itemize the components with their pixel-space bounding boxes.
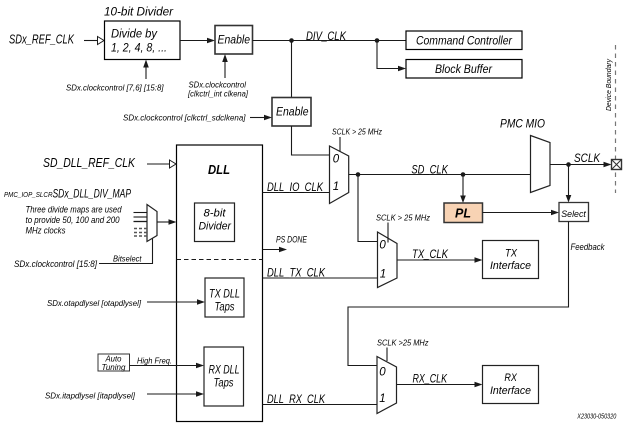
control label SDx.clockcontrol [clkctrl_int clkena] <box>187 80 248 99</box>
block PL <box>444 203 483 223</box>
wire SCLK to Select <box>566 165 572 203</box>
wire select M1 <box>339 137 341 152</box>
block TX Interface <box>483 241 539 279</box>
wire DLL_IO_CLK <box>263 192 330 194</box>
block Block Buffer <box>406 60 522 79</box>
mux M1 <box>330 146 349 204</box>
junction SCLK <box>566 162 571 167</box>
junction DIV_CLK at Enable2 branch <box>289 38 294 43</box>
enable block E1 <box>215 26 253 55</box>
svg-text:RX DLL: RX DLL <box>209 365 240 377</box>
wire control to Enable1 <box>222 54 228 78</box>
mux M3 <box>377 357 397 414</box>
wire select M2 <box>387 223 389 243</box>
block TX DLL Taps <box>205 278 244 317</box>
svg-text:SDx_REF_CLK: SDx_REF_CLK <box>9 33 74 47</box>
wire SCLK net <box>550 162 612 168</box>
svg-text:10-bit Divider: 10-bit Divider <box>104 5 174 19</box>
mux M4 PMC MIO <box>531 136 551 193</box>
svg-text:RX: RX <box>504 372 517 384</box>
svg-text:RX_CLK: RX_CLK <box>413 374 449 386</box>
svg-text:SDx.otapdlysel [otapdlysel]: SDx.otapdlysel [otapdlysel] <box>47 298 142 308</box>
svg-text:SCLK >25 MHz: SCLK >25 MHz <box>377 338 429 348</box>
block Select <box>559 203 589 222</box>
svg-text:Enable: Enable <box>276 105 309 119</box>
wire Enable1 to Command Controller (DIV_CLK net) <box>253 40 407 42</box>
svg-text:SDx_DLL_DIV_MAP: SDx_DLL_DIV_MAP <box>53 189 132 201</box>
enable block E2 <box>272 98 311 127</box>
wire DLL_TX_CLK <box>263 277 378 279</box>
wire SD_DLL_REF_CLK to DLL <box>147 160 176 168</box>
svg-text:SDx.clockcontrol [clkctrl_sdcl: SDx.clockcontrol [clkctrl_sdclkena] <box>123 113 246 123</box>
svg-text:TX: TX <box>505 248 518 260</box>
block 8-bit Divider <box>195 203 235 242</box>
svg-text:SDx.itapdlysel [itapdlysel]: SDx.itapdlysel [itapdlysel] <box>45 390 136 400</box>
svg-text:TX DLL: TX DLL <box>209 289 240 301</box>
svg-text:Interface: Interface <box>490 385 531 397</box>
svg-text:1: 1 <box>333 181 339 193</box>
svg-text:Taps: Taps <box>214 378 234 390</box>
wire DLL_RX_CLK <box>263 404 378 406</box>
svg-text:0: 0 <box>333 154 340 166</box>
svg-text:1: 1 <box>380 268 386 280</box>
svg-text:MHz clocks: MHz clocks <box>26 226 66 236</box>
wire control to divider <box>143 60 149 80</box>
svg-text:SCLK > 25 MHz: SCLK > 25 MHz <box>332 127 383 137</box>
svg-text:X23030-050320: X23030-050320 <box>577 414 617 421</box>
wire Auto Tuning to RX DLL Taps <box>130 363 205 369</box>
wire SD_CLK to PL <box>460 175 466 204</box>
svg-text:to provide 50, 100 and 200: to provide 50, 100 and 200 <box>26 215 120 225</box>
dashed divider inside DLL <box>177 259 263 261</box>
device boundary <box>604 45 616 193</box>
pad SCLK IO <box>612 160 622 170</box>
svg-text:8-bit: 8-bit <box>204 208 227 220</box>
note three divide maps <box>26 205 123 236</box>
svg-text:Block Buffer: Block Buffer <box>435 62 493 76</box>
wire control to Enable2 <box>250 115 272 121</box>
svg-text:Interface: Interface <box>490 260 531 272</box>
svg-text:PL: PL <box>455 207 471 221</box>
svg-text:DLL_TX_CLK: DLL_TX_CLK <box>267 268 326 280</box>
svg-text:PMC_IOP_SLCR: PMC_IOP_SLCR <box>4 192 53 199</box>
svg-text:DLL_RX_CLK: DLL_RX_CLK <box>267 394 326 406</box>
wire PS DONE <box>263 247 288 253</box>
svg-text:DLL: DLL <box>208 163 230 177</box>
svg-text:Three divide maps are used: Three divide maps are used <box>26 205 123 215</box>
mux M0 bitselect mux <box>147 205 157 242</box>
svg-text:PMC MIO: PMC MIO <box>500 119 545 131</box>
wire Feedback <box>348 222 569 366</box>
svg-text:0: 0 <box>379 367 386 379</box>
svg-text:0: 0 <box>379 240 386 252</box>
svg-text:Enable: Enable <box>218 33 251 47</box>
mux M2 <box>378 232 398 288</box>
junction DIV_CLK at Block Buffer branch <box>375 38 380 43</box>
svg-text:PS DONE: PS DONE <box>276 235 308 245</box>
junction SD_CLK b <box>461 172 466 177</box>
block DLL <box>177 145 263 422</box>
divider block <box>105 21 181 60</box>
wire DIV_CLK branch down to Enable2 <box>291 41 293 98</box>
wire DIV_CLK to Block Buffer <box>377 41 406 72</box>
svg-text:Feedback: Feedback <box>571 242 606 253</box>
svg-text:SDx.clockcontrol [15:8]: SDx.clockcontrol [15:8] <box>14 259 97 269</box>
svg-text:[clkctrl_int clkena]: [clkctrl_int clkena] <box>187 89 248 99</box>
svg-text:Divide by: Divide by <box>111 27 158 41</box>
svg-text:Select: Select <box>561 209 586 220</box>
svg-text:Command Controller: Command Controller <box>416 34 513 48</box>
wire otapdlysel to TX DLL Taps <box>147 299 205 305</box>
svg-text:SD_DLL_REF_CLK: SD_DLL_REF_CLK <box>43 155 136 170</box>
svg-text:SCLK > 25 MHz: SCLK > 25 MHz <box>376 213 431 223</box>
svg-text:DLL_IO_CLK: DLL_IO_CLK <box>267 182 324 194</box>
wire divider to Enable1 <box>180 38 215 44</box>
wires divide map inputs <box>134 213 148 222</box>
svg-text:SCLK: SCLK <box>574 153 601 165</box>
svg-text:Taps: Taps <box>215 302 235 314</box>
block RX Interface <box>483 366 539 404</box>
wire RX_CLK <box>397 382 483 388</box>
svg-text:1, 2, 4, 8, ...: 1, 2, 4, 8, ... <box>111 41 167 55</box>
junction SD_CLK a <box>356 172 361 177</box>
wire select M3 <box>386 348 388 362</box>
svg-text:TX_CLK: TX_CLK <box>412 249 449 261</box>
svg-text:Tuning: Tuning <box>102 363 127 372</box>
svg-text:Device Boundary: Device Boundary <box>604 58 613 111</box>
wire itapdlysel to RX DLL Taps <box>147 391 204 397</box>
svg-text:1: 1 <box>379 393 385 405</box>
svg-text:Divider: Divider <box>199 221 233 233</box>
wire SD_CLK net <box>349 174 531 176</box>
svg-text:SDx.clockcontrol [7,6] [15:8]: SDx.clockcontrol [7,6] [15:8] <box>66 83 164 93</box>
svg-text:Bitselect: Bitselect <box>113 253 142 263</box>
svg-text:SD_CLK: SD_CLK <box>411 165 449 177</box>
wire SD_CLK to mux M2 input 0 <box>358 175 378 242</box>
label PMC_IOP_SLCR SDx_DLL_DIV_MAP <box>4 189 131 201</box>
block RX DLL Taps <box>204 347 244 406</box>
wire mux M0 output to DLL <box>157 219 177 225</box>
svg-text:High Freq.: High Freq. <box>137 356 172 366</box>
wire TX_CLK <box>397 257 483 263</box>
wire Enable2 to mux M1 input 0 <box>292 126 330 155</box>
svg-text:DIV_CLK: DIV_CLK <box>306 31 347 43</box>
wire SDx_REF_CLK to divider <box>84 37 104 45</box>
wire PL to Select <box>483 210 560 216</box>
block Command Controller <box>406 31 522 50</box>
block Auto Tuning <box>98 354 130 372</box>
wire bitselect to mux M0 <box>99 239 153 264</box>
wires divide map more inputs dashed <box>134 229 147 237</box>
